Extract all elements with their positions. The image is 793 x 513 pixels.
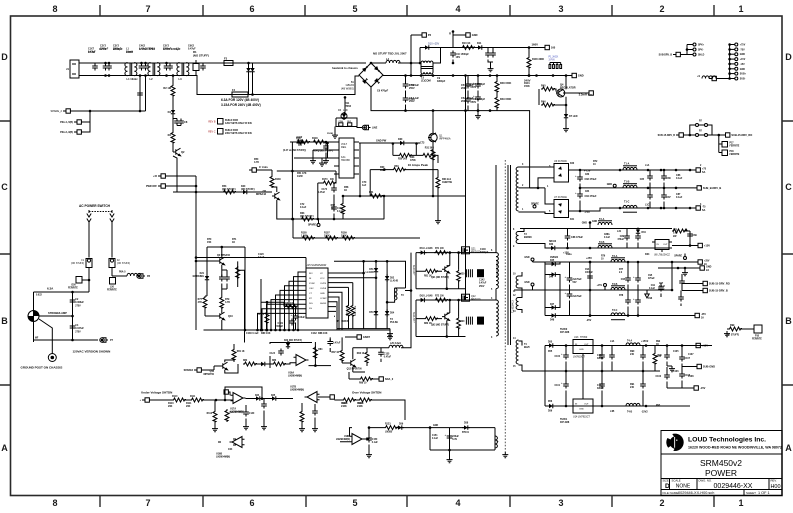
wire spare5 stub (684, 254, 686, 257)
wire U15 right fanout (334, 273, 376, 330)
node 240V (528, 74, 531, 77)
wire pwm vert 2 (375, 261, 377, 328)
svg-text:R72 100: R72 100 (435, 296, 444, 298)
svg-text:R86 5.23K: R86 5.23K (355, 305, 357, 316)
wire P16 stub 5 (730, 63, 735, 65)
junction y1696 (383, 168, 386, 171)
junction (565, 405, 568, 408)
svg-text:C: C (1, 182, 8, 192)
resistor R2 (171, 84, 175, 97)
wire ov col (302, 403, 315, 426)
wire bridge top out (371, 62, 386, 64)
IC U2 voltage regulator (334, 138, 359, 178)
junction (565, 370, 568, 373)
svg-text:B: B (1, 316, 8, 326)
svg-text:360: 360 (380, 169, 385, 172)
resistor R79 (220, 296, 224, 309)
svg-text:0029446-XX: 0029446-XX (714, 483, 753, 490)
resistor R119 (300, 410, 304, 423)
svg-text:GND: GND (320, 293, 325, 295)
capacitor C133b (291, 313, 299, 321)
svg-text:GND: GND (592, 221, 597, 223)
svg-text:C106: C106 (673, 371, 679, 373)
diode D30 (398, 141, 406, 145)
junction (537, 187, 540, 190)
svg-text:Over Voltage SHTDN: Over Voltage SHTDN (352, 391, 381, 395)
resistor R72 (434, 298, 448, 302)
capacitor C121 (219, 275, 225, 282)
wire y340 (34, 339, 99, 341)
svg-text:2A: 2A (706, 269, 709, 272)
ground R64 (435, 218, 441, 224)
svg-text:R: R (449, 32, 451, 36)
wire R30 loop (393, 144, 438, 164)
svg-text:C84: C84 (585, 190, 590, 193)
svg-text:D45: D45 (550, 259, 555, 262)
junction (195, 191, 198, 194)
wire vref cell (430, 428, 495, 450)
svg-text:D30: D30 (398, 138, 403, 141)
connector P11 (673, 52, 680, 56)
wire D21 col (206, 247, 208, 296)
svg-text:120VAC VERSION SHOWN: 120VAC VERSION SHOWN (73, 350, 111, 354)
plug P9 (362, 125, 370, 129)
capacitor C150 (366, 436, 372, 443)
chassis ground arrow (645, 290, 649, 298)
svg-text:T3-A: T3-A (612, 255, 618, 258)
wire sec2 taps (519, 229, 549, 249)
wire y219 to 238 (293, 196, 384, 238)
svg-text:MARKING: MARKING (193, 275, 205, 278)
svg-text:LM7815CT: LM7815CT (573, 356, 585, 359)
svg-text:R2 1M: R2 1M (163, 86, 171, 90)
svg-text:(NO STUFF): (NO STUFF) (117, 263, 130, 265)
wire Q6 base (196, 260, 217, 262)
wire vreg down (359, 144, 361, 197)
svg-text:R96 10: R96 10 (357, 353, 365, 355)
junction (663, 207, 666, 210)
svg-text:SCALE: SCALE (672, 479, 681, 483)
capacitor C93 (565, 291, 573, 299)
wire P16 stub 4 (730, 58, 735, 60)
svg-text:OUT: OUT (584, 404, 589, 406)
resistor R96 (365, 351, 369, 364)
capacitor C104a (465, 82, 471, 89)
svg-text:R64Q (NO STUFF): R64Q (NO STUFF) (313, 150, 333, 153)
svg-text:L1C: L1C (645, 205, 650, 207)
capacitor C85b (647, 193, 653, 200)
junction rail75b (619, 207, 622, 210)
inductor T1A (623, 166, 637, 170)
transistor Q92 (442, 313, 450, 321)
svg-text:Q10: Q10 (228, 315, 233, 318)
svg-text:P8A-5: P8A-5 (119, 271, 126, 274)
svg-text:R80 10K: R80 10K (261, 332, 271, 335)
transformer T1 primary winding B (496, 289, 498, 336)
diode D48 (550, 313, 558, 317)
circuit breaker CB1 (28, 311, 39, 322)
junction (675, 187, 678, 190)
svg-text:C171: C171 (337, 208, 343, 210)
capacitor C103s (599, 382, 605, 389)
ground C140 (243, 424, 249, 430)
svg-text:1 OF 1: 1 OF 1 (758, 491, 770, 495)
svg-text:C85: C85 (640, 179, 645, 181)
wire spare4 stub (318, 219, 320, 224)
svg-text:SHEET: SHEET (746, 491, 756, 495)
capacitor C96 (633, 275, 641, 283)
diode D52 (385, 274, 389, 282)
svg-text:10mH: 10mH (126, 51, 133, 54)
svg-text:C142: C142 (479, 279, 485, 282)
svg-text:3.15A FOR 240V (4B 400V): 3.15A FOR 240V (4B 400V) (221, 103, 261, 107)
svg-text:C83 470uF: C83 470uF (585, 178, 597, 181)
svg-text:R48 150K: R48 150K (500, 82, 511, 85)
pin J2b (705, 134, 708, 137)
wire sec1 bottom tap (519, 212, 555, 214)
pin J2a (696, 134, 699, 137)
wire ctrl gnd stub (321, 158, 323, 161)
svg-text:4: 4 (455, 498, 460, 508)
op-amp U17A (231, 393, 246, 404)
wire y316 (39, 315, 73, 317)
pin P16-2 (735, 48, 738, 51)
wire gnd pwm conn (345, 336, 354, 338)
svg-text:R83: R83 (272, 360, 277, 362)
wire U16A out (315, 365, 331, 367)
connector P12 (709, 76, 716, 80)
svg-text:D48: D48 (550, 319, 555, 322)
capacitor C6 (200, 64, 206, 71)
svg-text:IRFP460A: IRFP460A (439, 138, 451, 141)
capacitor C95 (625, 276, 631, 283)
svg-text:R84: R84 (318, 348, 323, 351)
capacitor C4a (164, 64, 170, 71)
svg-text:FILE NAME:: FILE NAME: (663, 491, 680, 495)
wire tap 2 (145, 76, 147, 112)
svg-text:REV C: REV C (208, 131, 216, 134)
junction rail D (464, 109, 467, 112)
wire rail -75 (580, 208, 696, 211)
svg-text:D40: D40 (570, 162, 575, 165)
svg-text:SUB+: SUB+ (740, 74, 747, 76)
junction (386, 301, 389, 304)
wire C11 top (488, 48, 493, 54)
wire pwm top rail (334, 261, 406, 288)
svg-text:D10 +25V: D10 +25V (428, 43, 440, 46)
capacitor C104s (609, 353, 615, 360)
connector SUBDRV RO (723, 133, 753, 137)
junction (375, 260, 378, 263)
feedback box U16A (270, 343, 312, 369)
wire pm25 col (589, 262, 591, 316)
wire breaker diag (39, 319, 52, 354)
title block text (663, 437, 782, 496)
resistor R110 (172, 398, 186, 402)
node GND b3a (531, 258, 534, 261)
wire band3 rail3 (545, 315, 692, 317)
connector P6A-36 (74, 130, 81, 134)
resistor R78b (236, 266, 240, 279)
svg-text:250V: 250V (409, 100, 415, 103)
svg-text:P2: P2 (428, 33, 432, 37)
junction rail D (432, 109, 435, 112)
connector P2 (419, 33, 432, 37)
wire ctrl in (256, 169, 272, 171)
ferrite D50 (76, 277, 82, 284)
junction (689, 244, 692, 247)
junction (139, 110, 142, 113)
svg-text:330uF: 330uF (597, 387, 604, 390)
svg-text:240: 240 (630, 353, 635, 356)
junction (448, 449, 451, 452)
wire C102s col (601, 346, 603, 407)
svg-text:H0165R: H0165R (341, 159, 350, 162)
capacitor C109 (679, 279, 685, 286)
wire rail mid75 (580, 187, 693, 189)
inductor T1B (623, 184, 637, 188)
svg-text:OHM 5W: OHM 5W (442, 181, 453, 184)
wire sub15 bus (682, 284, 700, 291)
ground 2a (682, 270, 688, 276)
junction (221, 246, 224, 249)
svg-text:R77: R77 (619, 269, 624, 271)
ground cell (447, 457, 453, 463)
svg-text:T4-B: T4-B (627, 411, 632, 414)
junction fan (297, 329, 300, 332)
capacitor CX2 (70, 324, 76, 331)
wire relay out (357, 127, 362, 128)
junction (195, 260, 198, 263)
junction (446, 287, 449, 290)
svg-text:1: 1 (738, 4, 743, 14)
junction (671, 261, 674, 264)
junction (386, 260, 389, 263)
junction rail B (410, 74, 413, 77)
wire cell feed (405, 290, 411, 292)
wire P16 stub 7 (730, 73, 735, 75)
wire y219 ext (286, 218, 384, 220)
wire R2 top (172, 76, 174, 85)
junction (292, 218, 295, 221)
diode D55 (547, 343, 555, 347)
transformer T1 secondary winding 2 (516, 232, 518, 244)
legend box REV B (218, 119, 224, 125)
wire Q10 col (221, 308, 223, 330)
svg-text:P10: P10 (755, 336, 760, 338)
svg-text:FERRITE: FERRITE (68, 288, 78, 290)
svg-text:D47: D47 (550, 303, 555, 306)
node gnd2a (677, 267, 680, 270)
svg-text:U15 SG3525ADW: U15 SG3525ADW (306, 264, 327, 267)
junction (165, 62, 168, 65)
svg-text:LINE: LINE (372, 128, 378, 130)
svg-text:0.047uF: 0.047uF (75, 327, 84, 330)
diode D10 (423, 45, 431, 49)
svg-text:D56: D56 (548, 401, 553, 403)
wire sec5 taps (519, 341, 523, 371)
wire R75 wire (665, 229, 690, 246)
svg-text:0.05: 0.05 (673, 233, 678, 235)
svg-text:T3-C: T3-C (612, 309, 618, 312)
svg-text:R82: R82 (243, 360, 248, 362)
wire uv mid (246, 399, 294, 425)
wire C51 col (477, 76, 479, 114)
wire Q1 drain (432, 111, 434, 134)
wire pwm bottom ext (389, 329, 391, 331)
wire band2 rail (557, 247, 672, 249)
transformer T1 secondary winding 3 (516, 276, 518, 288)
junction p16 (728, 58, 731, 61)
wire R3 to Q2 (172, 143, 174, 152)
capacitor C90 (635, 234, 641, 241)
svg-text:GND: GND (579, 349, 584, 351)
ground R119 (299, 426, 305, 432)
junction rail75 (689, 169, 692, 172)
junction (565, 104, 568, 107)
node GND T2 (589, 221, 592, 224)
pin P16-6 (735, 67, 738, 70)
capacitor C102b (403, 96, 416, 103)
svg-text:2200pF: 2200pF (100, 48, 109, 51)
svg-text:D34: D34 (645, 253, 650, 256)
svg-text:0.1uF: 0.1uF (372, 442, 379, 444)
junction (144, 62, 147, 65)
stub U16B (218, 439, 236, 445)
svg-text:SUB-DRV_B: SUB-DRV_B (659, 55, 673, 57)
resistor R75 (672, 229, 686, 233)
connector PWR1 (158, 174, 165, 178)
wire gate feed (353, 348, 389, 366)
svg-text:R3: R3 (168, 133, 172, 137)
junction (589, 289, 592, 292)
wire P16 stub 2 (730, 48, 735, 50)
svg-text:LM385: LM385 (385, 432, 393, 434)
svg-text:120V SETS ONLY-B S/N: 120V SETS ONLY-B S/N (225, 122, 252, 125)
diode D56 (547, 404, 555, 408)
wire C88 col (567, 229, 569, 249)
svg-text:PWR OFF: PWR OFF (146, 185, 158, 188)
junction (410, 62, 413, 65)
svg-text:1000pF: 1000pF (480, 251, 489, 254)
fuse holder F1 (71, 259, 92, 268)
wire ctrl x317 (317, 183, 319, 219)
connector +75 SA (693, 168, 700, 172)
wire F1 down (88, 268, 90, 293)
svg-text:REV.: REV. (771, 479, 777, 483)
svg-text:4.7K: 4.7K (254, 161, 259, 164)
svg-text:0.1uF: 0.1uF (676, 196, 683, 199)
junction (642, 370, 645, 373)
connector -75 SA (693, 206, 700, 210)
junction (410, 289, 413, 292)
junction fan (270, 329, 273, 332)
capacitor C7a (137, 91, 143, 98)
wire reg midrail (522, 370, 660, 372)
capacitor C11 (485, 51, 491, 58)
resistor R77 (203, 296, 207, 309)
wire aux to conn (529, 47, 542, 49)
svg-text:T3-B: T3-B (612, 283, 618, 286)
svg-text:200V: 200V (461, 87, 467, 90)
junction (333, 218, 336, 221)
inductor T3A primary (395, 288, 397, 300)
svg-text:D11: D11 (477, 42, 482, 45)
wire P6A-45 (82, 111, 91, 122)
junction (317, 218, 320, 221)
svg-text:R98 10: R98 10 (359, 383, 367, 385)
svg-text:0.1uF: 0.1uF (649, 288, 656, 290)
junction b3b (627, 314, 630, 317)
svg-text:BT101: BT101 (462, 432, 470, 434)
diode D59 (396, 425, 404, 429)
wire C150 col (368, 445, 370, 453)
svg-text:GND: GND (578, 74, 584, 78)
junction fan (274, 329, 277, 332)
resistor R84 (313, 346, 317, 359)
diode D61 (419, 250, 427, 254)
svg-text:C150: C150 (372, 439, 378, 441)
diode D34 (636, 228, 640, 236)
node GND b3b (531, 283, 534, 286)
svg-text:U14 LM7915CT: U14 LM7915CT (573, 416, 590, 419)
svg-text:C88b: C88b (604, 234, 610, 236)
capacitor C144 (312, 409, 318, 416)
IC U14 LM7915CT (573, 399, 593, 419)
svg-text:SA: SA (702, 209, 706, 212)
svg-text:15K: 15K (207, 241, 212, 244)
ground term (669, 366, 675, 372)
connector SUB15 RO2 (700, 281, 730, 285)
junction (266, 329, 269, 332)
ground C144 (312, 426, 318, 432)
resistor R102b (265, 311, 269, 324)
wire y238 rail (293, 237, 420, 239)
wire y196 rail (343, 195, 466, 197)
junction (368, 426, 371, 429)
wire U2 left bus (290, 141, 334, 143)
svg-text:U13: U13 (574, 336, 579, 339)
svg-text:C84 470uF: C84 470uF (585, 195, 597, 198)
capacitor C83 (575, 174, 583, 182)
junction (601, 405, 604, 408)
transistor Q5 (272, 192, 280, 200)
resistor R71 (434, 251, 448, 255)
junction (647, 187, 650, 190)
svg-text:P6A-4,-5(B): P6A-4,-5(B) (60, 121, 73, 124)
resistor R31 (422, 153, 436, 157)
svg-text:SIZE: SIZE (663, 479, 669, 483)
ground D7 (563, 126, 569, 132)
wire pwm box left (244, 247, 246, 330)
transistor Q91 (442, 265, 450, 273)
svg-text:+: + (565, 291, 567, 295)
svg-text:1500pF: 1500pF (275, 326, 284, 328)
svg-text:0.1uF: 0.1uF (300, 206, 307, 209)
svg-text:5: 5 (352, 4, 357, 14)
junction (266, 301, 269, 304)
wire Q5 emitter (277, 200, 286, 219)
row ticks left (0, 121, 11, 385)
wire L5 out (433, 48, 441, 64)
svg-text:GND: GND (433, 425, 438, 427)
junction p16 (728, 77, 731, 80)
wire u8 to conn (672, 245, 695, 247)
svg-text:R76: R76 (601, 256, 606, 258)
junction (579, 187, 582, 190)
wire drain drop link (530, 187, 538, 189)
svg-text:100V: 100V (659, 289, 665, 291)
